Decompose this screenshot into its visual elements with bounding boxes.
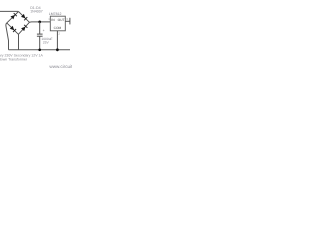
- op IC U1 LM7812 box: [50, 16, 65, 31]
- output terminal bar: [69, 18, 71, 25]
- node junction dot cap/ground: [38, 48, 41, 51]
- capacitor C1 plates: [37, 33, 43, 35]
- diode D1 top-left edge: [11, 13, 17, 19]
- wire capacitor branch upper: [39, 22, 41, 34]
- svg-text:OUT: OUT: [58, 18, 65, 22]
- svg-text:LM7812: LM7812: [49, 12, 62, 16]
- diode D3 bottom-left edge: [10, 26, 16, 32]
- wire positive rail bridge right vertex to IC IN: [29, 21, 50, 23]
- node junction dot COM/ground: [56, 48, 59, 51]
- svg-text:1N4007: 1N4007: [30, 10, 43, 14]
- wire IC OUT to terminal: [65, 20, 70, 22]
- svg-text:COM: COM: [54, 26, 62, 30]
- svg-text:down Transformer: down Transformer: [0, 58, 28, 62]
- diode D2 top-right edge: [21, 14, 27, 20]
- node junction dot cap branch: [38, 21, 41, 24]
- wire AC input top: [0, 10, 18, 12]
- svg-text:+: +: [43, 28, 45, 32]
- wire bottom rail: [9, 49, 71, 51]
- bridge rectifier diamond edges: [7, 12, 19, 23]
- wire capacitor branch lower: [39, 36, 41, 50]
- svg-text:www.circuit: www.circuit: [49, 64, 72, 69]
- wire bridge left vertex to bottom rail: [6, 23, 9, 50]
- wire bridge bottom vertex down: [18, 34, 20, 50]
- diode D4 bottom-right edge: [21, 25, 27, 31]
- svg-text:25V: 25V: [43, 40, 50, 44]
- wire COM pin down: [56, 31, 58, 50]
